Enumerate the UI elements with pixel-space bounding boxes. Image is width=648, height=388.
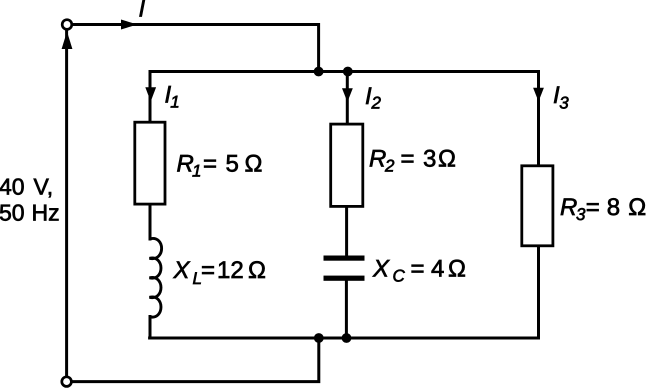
wire top rail from source to branch corner [72,25,319,72]
svg-text:R2=3Ω: R2=3Ω [369,146,456,176]
node B (junction top right, branch 2) [343,67,353,77]
svg-text:XL=12Ω: XL=12Ω [173,257,266,288]
wire left source conductor [65,30,68,377]
arrowhead current I3 (pointing down) [533,88,544,102]
inductor XL (coil, 4 loops) [150,238,162,317]
resistor R3 (box) [522,166,553,246]
arrowhead current I (top wire, pointing right) [121,20,138,30]
node D (junction bottom right, branch 2) [342,333,352,343]
arrowhead current I1 (pointing down) [145,87,156,101]
source terminal top (open circle) [62,20,72,30]
capacitor XC bottom plate [324,276,365,281]
wire branch 2 top [346,72,349,125]
wire branch 2 bottom [345,281,348,338]
svg-text:I: I [139,0,146,23]
wire branch 1 top [149,72,152,123]
arrowhead current I2 (pointing down) [342,88,353,102]
resistor R1 (box) [135,122,165,204]
arrowhead source voltage (pointing up) [62,32,73,50]
node C (junction bottom left) [314,333,324,343]
wire branch 1 bottom [149,317,152,339]
wire branch 2 between R2 and capacitor [345,206,348,255]
wire bottom rail (branch bottom bus) [150,337,539,340]
resistor R2 (box) [331,124,363,206]
wire branch 3 bottom [537,246,540,338]
wire branch 1 between R1 and coil [149,204,152,239]
wire branch 3 top [537,72,540,166]
svg-text:XC=4Ω: XC=4Ω [372,256,466,286]
wire second rail (branch top bus) [150,70,539,73]
wire bottom source conductor [72,338,319,382]
node A (junction top left) [314,67,324,77]
capacitor XC top plate [324,256,365,261]
source terminal bottom (open circle) [62,377,72,387]
